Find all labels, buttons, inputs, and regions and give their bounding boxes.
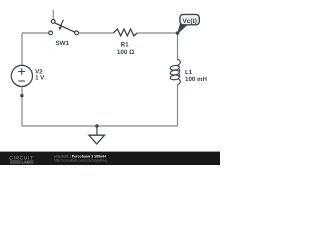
- inductor L1: [170, 59, 180, 84]
- svg-text:SW1: SW1: [55, 40, 69, 47]
- resistor R1: [113, 29, 137, 36]
- node junction dot left: [20, 94, 23, 97]
- wire switch top stub: [52, 10, 54, 20]
- watermark bar: [0, 152, 220, 165]
- svg-text:100 mH: 100 mH: [185, 76, 208, 83]
- switch SW1: [49, 20, 79, 35]
- minus sign: [18, 80, 25, 82]
- svg-text:R1: R1: [121, 42, 130, 49]
- node Vc(t) label box: [180, 14, 199, 24]
- wire right vertical lower: [177, 85, 179, 126]
- logo lines: [10, 161, 34, 163]
- wire resistor to node: [137, 32, 177, 34]
- wire left vertical lower: [21, 87, 23, 126]
- wire left vertical: [21, 33, 23, 65]
- svg-text:LAB: LAB: [22, 159, 30, 164]
- svg-text:Vc(t): Vc(t): [182, 18, 196, 25]
- plus sign: [18, 68, 25, 75]
- wire top-left horizontal: [22, 32, 49, 34]
- node Vc(t) flag tail: [178, 23, 187, 33]
- wire right vertical upper: [177, 33, 179, 60]
- svg-text:http://circuitlab.com/c/p2atyq: http://circuitlab.com/c/p2atyq49vg: [54, 158, 107, 162]
- svg-text:L1: L1: [185, 69, 193, 76]
- ground: [95, 124, 98, 127]
- wire bottom horizontal: [22, 125, 178, 127]
- voltage source V2: [11, 65, 32, 86]
- svg-text:100 Ω: 100 Ω: [117, 49, 134, 56]
- wire switch to resistor: [79, 32, 113, 34]
- svg-text:1 V: 1 V: [35, 75, 45, 82]
- node junction dot Vc: [176, 31, 180, 35]
